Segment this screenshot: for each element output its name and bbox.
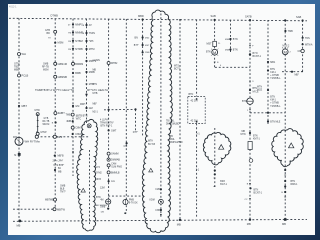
svg-text:MTW: MTW <box>41 131 48 134</box>
svg-text:BLB: BLB <box>60 189 65 191</box>
node x73-c <box>72 40 74 42</box>
node x86-h <box>85 93 87 95</box>
pin 1 <box>249 109 251 111</box>
connector x55-g <box>54 198 57 201</box>
breaker circle x250 <box>247 98 253 104</box>
svg-text:BTN: BTN <box>242 101 247 103</box>
connector x37 pair <box>36 113 39 116</box>
svg-text:MB: MB <box>93 70 97 72</box>
svg-text:B: B <box>83 25 85 27</box>
wire V x197 lower <box>196 124 198 219</box>
connector x108-a <box>107 62 110 65</box>
node x86-d <box>85 48 87 50</box>
wire V x73 <box>72 19 74 176</box>
svg-text:MTBM: MTBM <box>75 40 82 43</box>
pin 14a <box>37 120 39 122</box>
svg-text:GTh: GTh <box>96 167 101 169</box>
svg-text:GMB: GMB <box>43 64 49 66</box>
wire V x55 <box>54 19 56 210</box>
svg-text:BCNT-1: BCNT-1 <box>253 55 262 58</box>
node top x180 <box>179 19 181 21</box>
svg-text:&MBT: &MBT <box>58 112 65 115</box>
meter PMB circle <box>123 199 128 204</box>
node x73-k <box>72 133 74 135</box>
svg-text:BTN: BTN <box>270 97 275 99</box>
node x302-a <box>302 37 304 39</box>
triangle flag bottom-left cloud <box>81 188 85 192</box>
motor M1 circled <box>212 49 218 55</box>
node cloud C2B <box>160 188 162 190</box>
svg-text:MSM: MSM <box>58 42 64 45</box>
svg-text:AT: AT <box>89 24 92 27</box>
wire V x180 <box>179 19 181 220</box>
svg-text:TM: TM <box>68 33 71 35</box>
svg-text:M8 B: M8 B <box>96 179 102 181</box>
svg-text:MB*: MB* <box>93 104 97 106</box>
svg-text:TB DML: TB DML <box>166 121 175 123</box>
node x73-f <box>72 72 74 74</box>
resistor MST box <box>213 41 217 46</box>
svg-text:MTB2: MTB2 <box>111 62 118 65</box>
connector x73-e <box>72 62 75 65</box>
svg-text:BTT’: BTT’ <box>134 44 140 47</box>
svg-text:BTN: BTN <box>93 84 98 86</box>
svg-text:4MB: 4MB <box>225 39 230 41</box>
node below left cloud b <box>214 173 216 175</box>
svg-text:BMMM: BMMM <box>75 63 83 66</box>
svg-text:BTN: BTN <box>189 93 194 96</box>
wire mid link H8 <box>104 108 136 110</box>
svg-text:BL*2: BL*2 <box>57 137 63 139</box>
svg-text:1: 1 <box>247 110 249 112</box>
pin below right cloud <box>284 174 286 176</box>
svg-text:4M: 4M <box>100 199 103 201</box>
wire V x268 <box>267 20 269 124</box>
svg-text:BD: BD <box>47 32 51 35</box>
svg-text:BTN: BTN <box>291 181 296 183</box>
node below right cloud b <box>284 180 286 182</box>
svg-text:C2B: C2B <box>155 189 160 191</box>
svg-text:MB1: MB1 <box>270 61 276 64</box>
pin below left cloud <box>214 177 216 179</box>
svg-text:BTN: BTN <box>206 52 211 54</box>
svg-text:M: M <box>213 50 216 55</box>
node x126-b <box>124 212 126 214</box>
wire V x108 <box>108 19 110 209</box>
svg-text:BCNT-1: BCNT-1 <box>254 192 263 195</box>
triangle flag right cloud <box>289 143 294 148</box>
svg-text:B: B <box>247 183 249 185</box>
node x108-h <box>107 208 109 210</box>
node bottom x250 <box>249 219 251 221</box>
connector x73-j <box>71 126 74 129</box>
node top x302 <box>302 19 304 21</box>
node x19-c <box>18 105 20 107</box>
svg-text:BTN RST-1: BTN RST-1 <box>101 126 113 128</box>
svg-text:MBTW: MBTW <box>57 207 65 211</box>
svg-text:DML: DML <box>170 139 176 141</box>
fuse box x250 <box>248 142 252 150</box>
svg-text:BN: BN <box>135 37 139 40</box>
node box top <box>196 98 198 100</box>
svg-text:TMT*: TMT* <box>60 192 66 194</box>
lamp WH-RYTM big circle <box>15 137 23 145</box>
svg-text:mmMS: mmMS <box>93 60 101 62</box>
wire V x302 <box>302 20 304 71</box>
node x142-b <box>142 44 144 46</box>
svg-text:BGT-1: BGT-1 <box>220 184 227 186</box>
svg-text:F: F <box>252 46 254 48</box>
node x126-a <box>126 142 128 144</box>
svg-text:2-1: 2-1 <box>196 169 200 171</box>
node x55-b <box>54 42 56 44</box>
svg-text:BB2 6MTB2: BB2 6MTB2 <box>95 205 108 207</box>
svg-text:MSM: MSM <box>43 70 48 72</box>
wire V x19 <box>18 18 20 220</box>
node cloud C3B <box>160 209 162 211</box>
svg-text:DMMAB: DMMAB <box>111 159 120 162</box>
svg-text:CM: CM <box>124 145 128 148</box>
svg-text:T2H/DB-L: T2H/DB-L <box>270 106 281 108</box>
connector x55 link <box>53 135 56 138</box>
connector x19-b <box>18 74 21 77</box>
svg-text:9: 9 <box>252 81 254 83</box>
wire bottom bus H2 <box>13 219 307 221</box>
node x86-c <box>85 40 87 42</box>
svg-text:MBT: MBT <box>22 104 28 108</box>
svg-text:DTMB: DTMB <box>51 14 59 18</box>
wire V x215 lower <box>214 128 216 187</box>
svg-text:MTB: MTB <box>93 93 98 95</box>
svg-text:CAM: CAM <box>111 163 116 166</box>
svg-text:C3B: C3B <box>155 210 160 212</box>
svg-text:MTMB: MTMB <box>75 48 83 51</box>
wire V x285 <box>284 20 286 219</box>
node x55 168 <box>54 169 56 171</box>
svg-text:2: 2 <box>290 52 292 54</box>
svg-text:BTN: BTN <box>253 135 258 137</box>
svg-text:2M: 2M <box>68 49 71 51</box>
svg-text:C2: C2 <box>245 199 249 201</box>
svg-text:GMB: GMB <box>60 186 66 188</box>
svg-text:1M: 1M <box>68 41 71 43</box>
svg-text:B: B <box>83 33 85 35</box>
node x108-g <box>108 180 110 182</box>
motor M2 circled <box>282 49 288 55</box>
svg-text:RM8-1: RM8-1 <box>291 184 299 186</box>
svg-text:SAB: SAB <box>211 14 216 18</box>
wire V x197 <box>196 20 198 97</box>
revision cloud (left round) <box>203 132 231 164</box>
svg-text:TMB: TMB <box>66 114 71 117</box>
svg-text:9-TK DK: 9-TK DK <box>129 203 138 205</box>
svg-text:+ DTMB: + DTMB <box>270 103 279 105</box>
node x232-b <box>229 48 231 50</box>
pin 9 <box>249 80 251 82</box>
wire V x142 <box>142 20 144 137</box>
node x55 155 <box>54 155 56 157</box>
pin below right cloud 2 <box>284 196 286 198</box>
svg-text:KM-1: KM-1 <box>270 72 276 74</box>
wire V x161 (in cloud) <box>160 14 162 219</box>
connector x37-b <box>36 132 39 135</box>
node H8 x135 <box>134 108 136 110</box>
svg-text:4012-1: 4012-1 <box>9 6 17 9</box>
node x268-b <box>267 69 269 71</box>
node x108-b <box>108 129 110 131</box>
svg-text:MB*B: MB*B <box>58 155 65 158</box>
svg-text:GMT: GMT <box>111 129 117 132</box>
svg-text:WTC: WTC <box>76 118 82 121</box>
svg-text:4M2: 4M2 <box>145 37 150 39</box>
svg-text:BTN: BTN <box>96 197 101 199</box>
svg-text:2L: 2L <box>218 43 221 45</box>
svg-text:mm: mm <box>111 180 115 183</box>
meter CAB circle <box>106 199 111 204</box>
svg-text:BTN: BTN <box>233 38 238 41</box>
node below right cloud d <box>284 191 286 193</box>
svg-text:4: 4 <box>220 65 222 67</box>
node top x215 <box>214 19 216 21</box>
svg-text:C8M: C8M <box>75 127 80 130</box>
svg-text:MT2 BTB*: MT2 BTB* <box>54 165 65 167</box>
svg-text:BTN MLE: BTN MLE <box>270 122 280 124</box>
node x302-b <box>302 43 304 45</box>
svg-text:MCE: MCE <box>257 90 263 92</box>
pin below left cloud 2 <box>214 186 216 188</box>
svg-text:RF-TB: RF-TB <box>43 121 50 123</box>
svg-text:KM-1: KM-1 <box>270 100 276 102</box>
node x250-a <box>249 53 251 55</box>
node x86-a <box>85 24 87 26</box>
svg-text:MST: MST <box>207 43 213 46</box>
svg-text:MT*GTC HEALTH: MT*GTC HEALTH <box>87 88 108 92</box>
lamp crossed circle in ribbon top <box>87 124 91 128</box>
svg-text:4 (1,PH*: 4 (1,PH* <box>100 119 109 121</box>
svg-text:GBMMB: GBMMB <box>58 76 68 79</box>
svg-text:SAB: SAB <box>296 15 301 19</box>
svg-text:M: M <box>14 154 16 157</box>
svg-text:BCT-B: BCT-B <box>148 143 155 146</box>
node x268-c <box>267 89 269 91</box>
node x142-c <box>142 51 144 53</box>
svg-text:WH RYTMm: WH RYTMm <box>25 140 41 144</box>
node x268-d <box>267 112 269 114</box>
svg-text:GLM PMG: GLM PMG <box>111 166 122 168</box>
node bottom x180 <box>179 219 181 221</box>
connector x36 <box>35 135 38 138</box>
svg-text:4T: 4T <box>68 25 71 27</box>
svg-text:+ DTMB: + DTMB <box>270 75 279 77</box>
node x250-d <box>249 187 251 189</box>
node x73-g <box>72 105 74 107</box>
svg-text:DTT’: DTT’ <box>133 131 139 134</box>
svg-text:BTN: BTN <box>270 69 275 71</box>
wire V x126 <box>125 19 127 213</box>
node x73-i <box>72 120 74 122</box>
contact box x19 <box>18 153 21 156</box>
node H5 x292 <box>291 71 293 73</box>
wire mid-left link H3 <box>37 136 90 138</box>
revision cloud (right round) <box>272 129 304 167</box>
svg-text:M: M <box>284 50 287 55</box>
wire V x215 upper <box>214 20 216 68</box>
pin motor B <box>214 61 216 63</box>
svg-text:4MB: 4MB <box>66 120 71 123</box>
svg-text:PCLB: PCLB <box>22 74 29 78</box>
node below right cloud a <box>284 169 286 171</box>
svg-text:MTD: MTD <box>35 109 40 112</box>
pin C2 <box>249 198 251 200</box>
svg-text:MTS 2: MTS 2 <box>283 45 290 47</box>
revision cloud (bottom-left ribbon) <box>77 119 98 231</box>
connector x55-d <box>54 75 57 78</box>
svg-text:MTN: MTN <box>241 134 246 136</box>
triangle flag in central cloud <box>149 168 153 172</box>
svg-text:DMPGMLBD: DMPGMLBD <box>166 124 180 126</box>
node x268-a <box>267 61 269 63</box>
svg-text:TM/N: TM/N <box>89 32 95 35</box>
svg-text:90%: 90% <box>13 137 18 139</box>
node x232-a <box>229 38 231 40</box>
node x250-b <box>249 89 251 91</box>
svg-text:TRANSMTN*: TRANSMTN* <box>100 121 114 124</box>
svg-text:BR3: BR3 <box>220 181 225 183</box>
wire V x86 <box>86 19 88 123</box>
node box bottom <box>196 121 198 123</box>
svg-text:RF-TB: RF-TB <box>42 67 49 69</box>
node x73-a <box>72 23 74 25</box>
node below left cloud a <box>214 169 216 171</box>
svg-text:*MT-: *MT- <box>89 40 94 43</box>
svg-text:42 DH: 42 DH <box>191 99 198 102</box>
connector x19-a <box>18 53 21 56</box>
svg-text:BMMLB: BMMLB <box>111 171 120 174</box>
wire x37 seg <box>37 114 39 134</box>
svg-text:T2H/DB-L: T2H/DB-L <box>270 78 281 80</box>
node x86-b <box>85 32 87 34</box>
meter circle in cloud <box>159 199 164 204</box>
node top x285 <box>284 19 286 21</box>
connector x55-c <box>54 62 57 65</box>
svg-text:BCT-1: BCT-1 <box>174 69 181 71</box>
svg-text:WM-M: WM-M <box>43 124 50 126</box>
svg-text:TDS: TDS <box>305 37 310 40</box>
node top x142 <box>142 18 144 20</box>
svg-text:T8: T8 <box>48 38 51 40</box>
svg-text:MTM: MTM <box>89 48 95 51</box>
svg-text:GTB: GTB <box>44 118 49 120</box>
svg-text:MB: MB <box>58 172 62 174</box>
svg-text:B: B <box>281 192 283 194</box>
svg-text:KMT-1: KMT-1 <box>253 138 260 140</box>
svg-text:GM: GM <box>75 105 79 108</box>
svg-text:MBTMB: MBTMB <box>45 199 54 202</box>
wire V x232 <box>230 20 232 52</box>
pin 14b <box>37 126 39 128</box>
svg-text:MB: MB <box>282 222 286 226</box>
svg-text:B4: B4 <box>58 168 62 170</box>
pin B 250 <box>249 183 251 185</box>
triangle flag left cloud <box>219 145 224 150</box>
svg-text:20°M2: 20°M2 <box>95 173 102 175</box>
wire lower-left branch Ha <box>13 208 55 210</box>
node x142-a <box>142 36 144 38</box>
connector x55-a <box>54 30 57 33</box>
node top x250 <box>249 19 251 21</box>
svg-text:GM: GM <box>89 107 93 110</box>
svg-text:12M: 12M <box>100 186 105 189</box>
svg-text:GAMM: GAMM <box>111 153 118 156</box>
svg-text:1+1: 1+1 <box>196 133 201 135</box>
node x86-i <box>85 107 87 109</box>
wire bottom-mid link H7 <box>108 195 144 197</box>
node x86-e <box>85 60 87 62</box>
svg-text:BTN: BTN <box>233 49 238 52</box>
connector x108-d double <box>107 158 110 161</box>
svg-text:DB: DB <box>101 212 105 214</box>
wire right link H4 <box>250 112 285 114</box>
svg-text:TB: TB <box>170 136 173 138</box>
svg-text:TMB: TMB <box>288 30 293 33</box>
svg-text:M2-1: M2-1 <box>93 112 99 114</box>
connector x108-e <box>107 164 110 167</box>
svg-text:MB: MB <box>17 224 21 228</box>
svg-text:MTN: MTN <box>257 87 262 89</box>
svg-text:MB: MB <box>177 222 181 226</box>
pin x86-g <box>85 83 87 85</box>
svg-text:MBD: MBD <box>138 14 144 18</box>
pin F <box>249 45 251 47</box>
svg-text:4MT: 4MT <box>145 45 150 47</box>
svg-text:MBL: MBL <box>14 69 20 72</box>
svg-text:GMB: GMB <box>100 207 106 209</box>
svg-text:MB: MB <box>242 131 246 133</box>
svg-text:4MB: 4MB <box>225 50 230 52</box>
svg-text:MTS: MTS <box>174 66 179 68</box>
svg-text:MDH: MDH <box>80 104 86 106</box>
node H8 x108 <box>108 109 110 111</box>
svg-text:MB: MB <box>247 222 251 226</box>
node x285-a <box>284 30 286 32</box>
svg-text:KDM: KDM <box>150 200 155 202</box>
svg-text:B: B <box>52 123 54 125</box>
svg-text:PMB: PMB <box>129 200 134 202</box>
node bottom x19 <box>18 220 21 223</box>
svg-text:28 + (,PH*: 28 + (,PH* <box>53 161 64 163</box>
node x250-c <box>249 132 251 134</box>
connector x108-f <box>107 171 110 174</box>
svg-text:GBMmB: GBMmB <box>58 63 68 66</box>
node below right cloud c <box>284 185 286 187</box>
node x73-d <box>72 48 74 50</box>
node cloud bottom <box>160 214 162 216</box>
relay box 42DH <box>188 97 205 124</box>
connector x73-h <box>71 113 74 116</box>
svg-text:MTN/A: MTN/A <box>305 43 313 46</box>
wire right upper link H5 <box>282 71 303 73</box>
svg-text:2MB: 2MB <box>145 52 150 54</box>
node x86-f <box>85 71 87 73</box>
connector x108-c <box>107 152 110 155</box>
pin H5 end <box>301 71 303 73</box>
svg-text:MB*: MB* <box>295 75 299 77</box>
wire motor link H6 <box>215 66 250 68</box>
node x73-b <box>72 31 74 33</box>
connector x55-e <box>54 112 57 115</box>
node bottom x285 <box>284 218 287 221</box>
node x73-l <box>72 151 74 153</box>
